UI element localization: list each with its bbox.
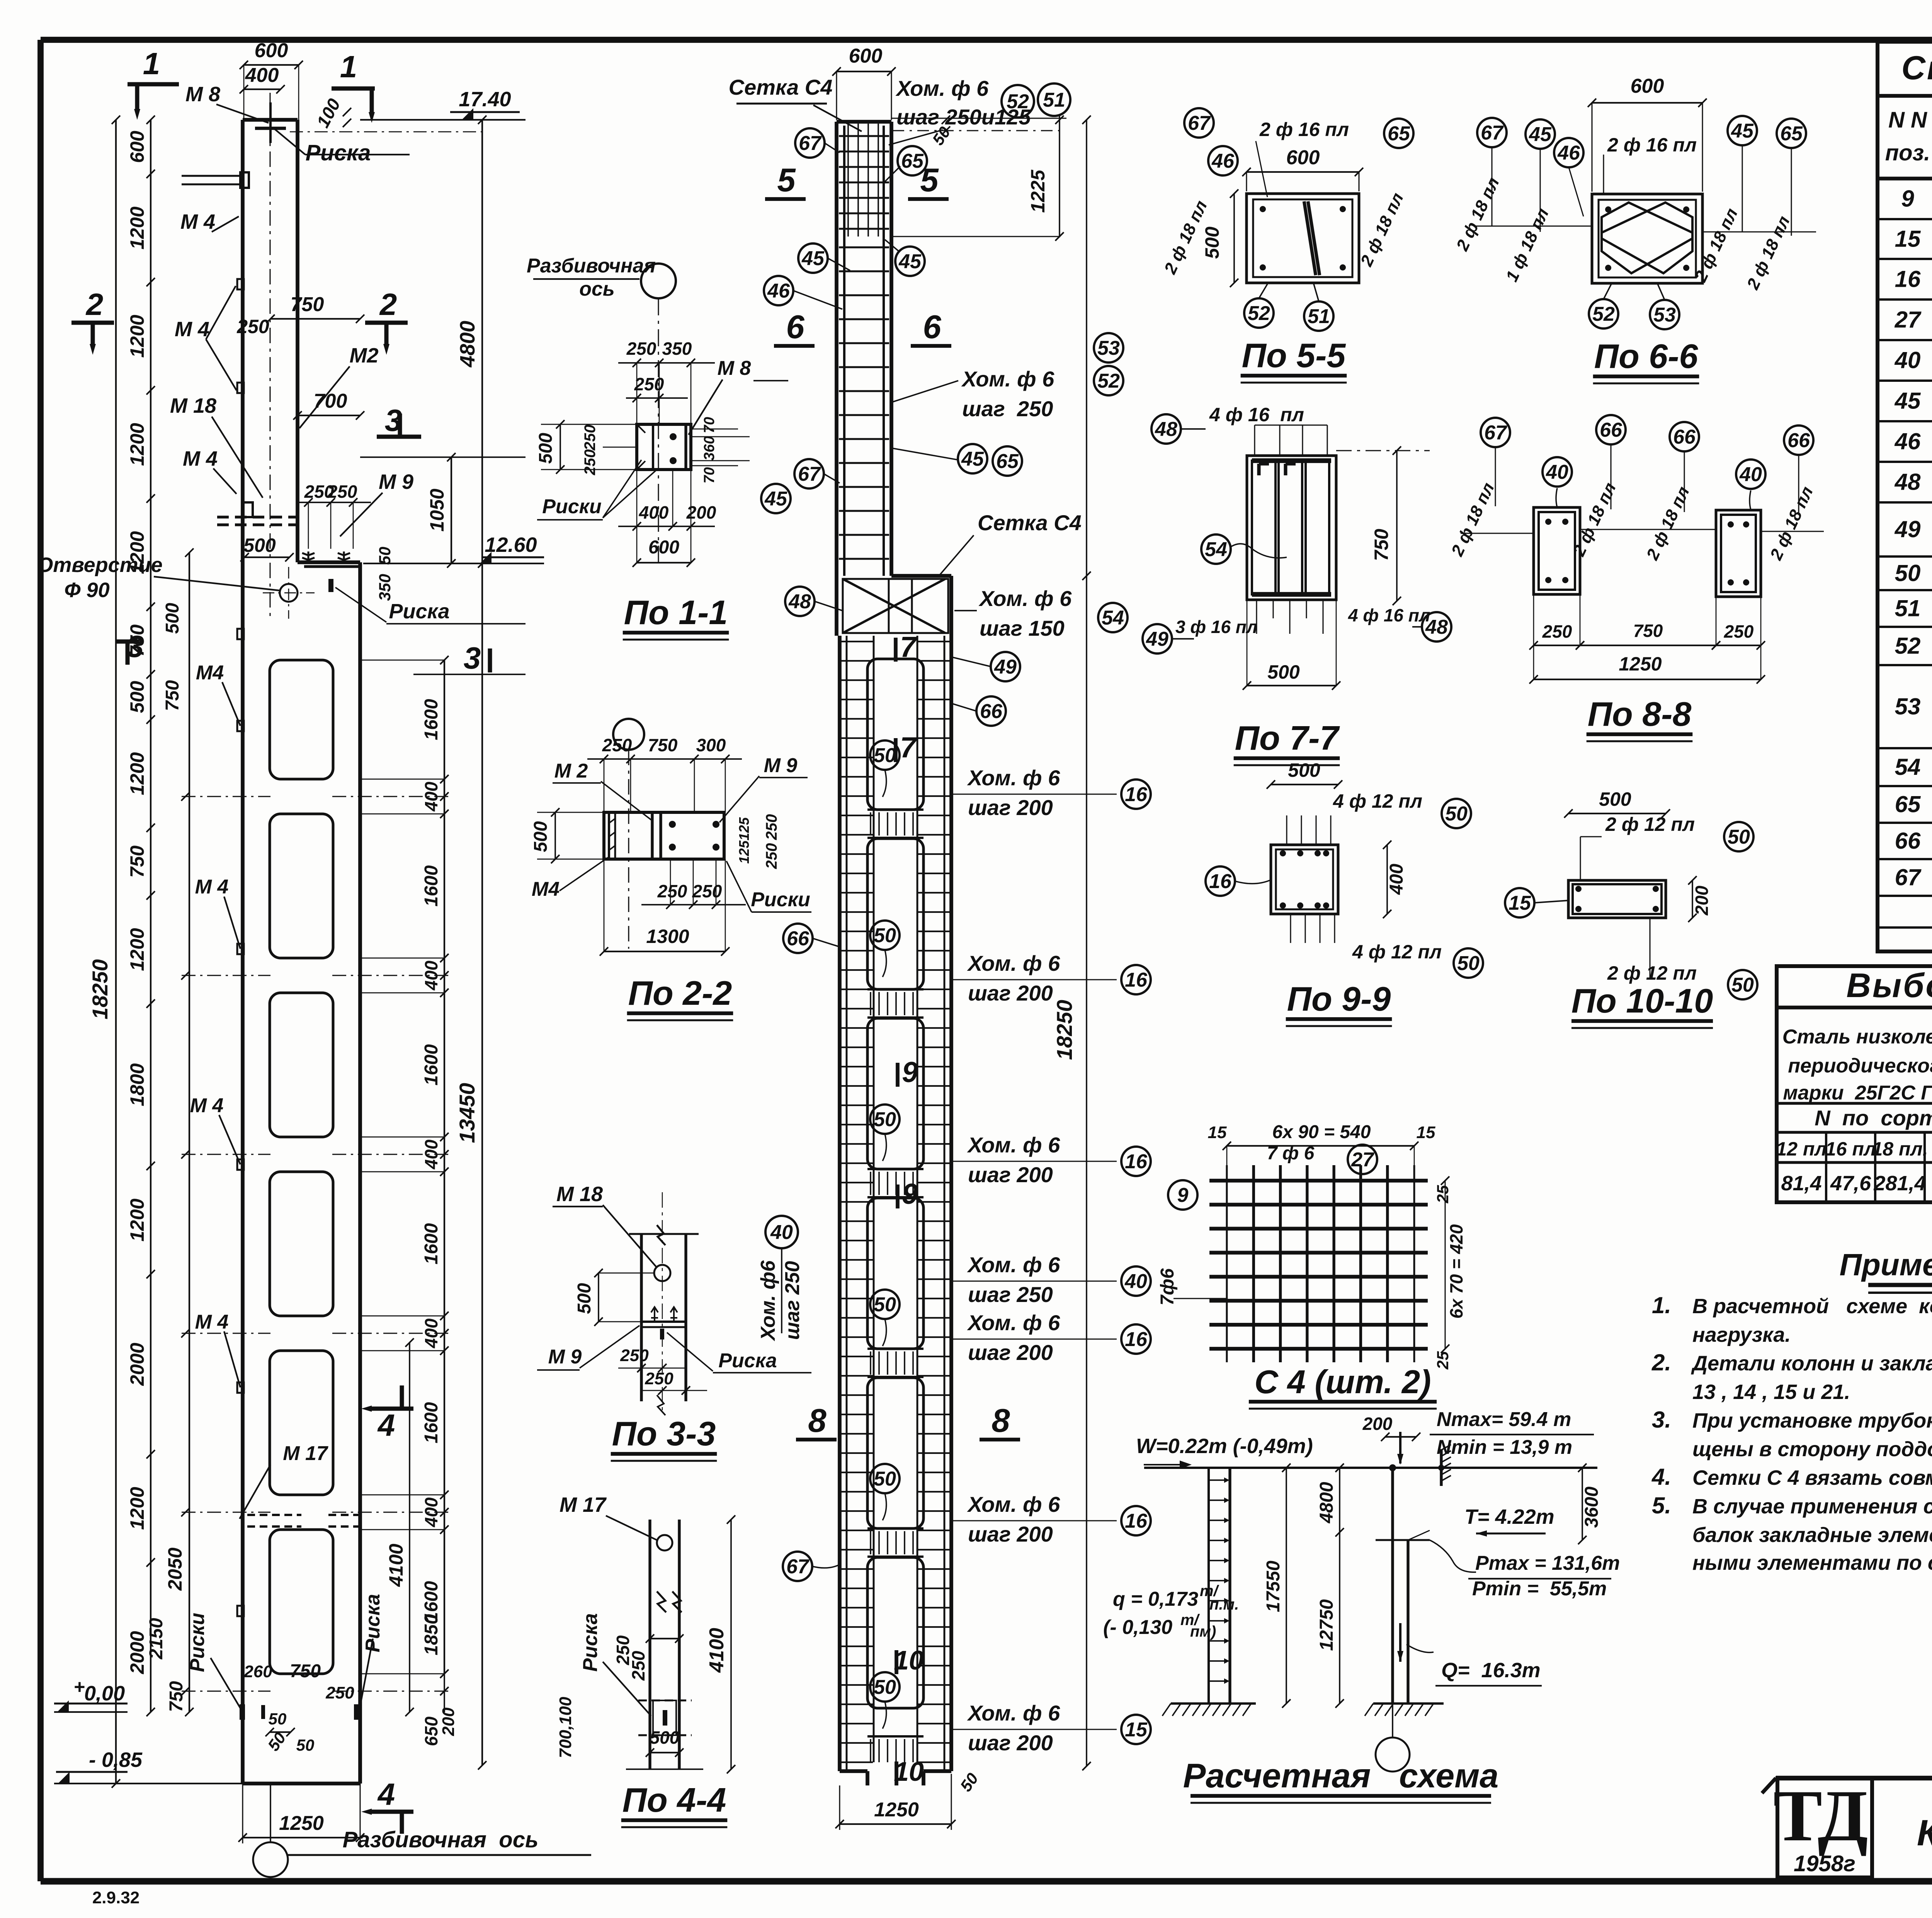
svg-text:65: 65	[901, 150, 924, 172]
svg-text:Сетка С4: Сетка С4	[729, 75, 833, 99]
svg-text:16 пл: 16 пл	[1825, 1138, 1876, 1160]
middle openings	[867, 659, 923, 810]
svg-text:54: 54	[1895, 754, 1921, 780]
svg-text:67: 67	[799, 132, 822, 155]
svg-text:500: 500	[162, 603, 183, 634]
svg-text:По 10-10: По 10-10	[1571, 982, 1713, 1020]
column openings	[270, 660, 333, 779]
svg-text:2000: 2000	[126, 1343, 148, 1386]
svg-text:Т= 4.22т: Т= 4.22т	[1464, 1505, 1554, 1528]
svg-text:3: 3	[385, 403, 402, 437]
svg-text:18250: 18250	[88, 959, 112, 1019]
mesh C4	[1226, 1165, 1228, 1362]
svg-text:600: 600	[1631, 75, 1664, 97]
hole Ф90	[280, 584, 298, 602]
steel selection table (Выборка стали на колонну)	[1777, 966, 1932, 1202]
svg-text:Риска: Риска	[718, 1350, 777, 1372]
calculation scheme	[1144, 1467, 1597, 1469]
svg-text:6х 70 = 420: 6х 70 = 420	[1446, 1224, 1466, 1319]
svg-text:4100: 4100	[385, 1544, 407, 1587]
band stirrups 2	[870, 992, 871, 1015]
svg-text:q = 0,173: q = 0,173	[1113, 1588, 1198, 1610]
svg-text:7: 7	[900, 731, 917, 764]
svg-text:шаг 200: шаг 200	[968, 1522, 1053, 1546]
svg-text:27: 27	[1351, 1149, 1374, 1171]
svg-text:16: 16	[1125, 1328, 1148, 1351]
svg-text:250: 250	[763, 814, 780, 841]
svg-text:1250: 1250	[874, 1799, 919, 1821]
svg-text:65: 65	[1780, 123, 1803, 145]
M17 tube dashed	[653, 1700, 676, 1735]
top mesh zone	[847, 124, 849, 237]
По1-1 left dims	[560, 424, 561, 470]
svg-text:52: 52	[1592, 303, 1615, 325]
svg-text:9: 9	[902, 1056, 918, 1088]
svg-text:М 8: М 8	[718, 357, 751, 380]
svg-text:250: 250	[763, 843, 780, 870]
svg-text:17.40: 17.40	[459, 88, 511, 111]
svg-text:4: 4	[377, 1408, 395, 1442]
logo box ТД 1958	[1777, 1778, 1872, 1877]
svg-text:15: 15	[1417, 1123, 1435, 1142]
svg-text:По 3-3: По 3-3	[612, 1414, 716, 1453]
svg-text:Расчетная схема: Расчетная схема	[1183, 1756, 1499, 1795]
svg-text:500: 500	[1288, 759, 1320, 781]
svg-text:50: 50	[1731, 974, 1754, 996]
svg-text:16: 16	[1125, 783, 1148, 806]
svg-text:3.: 3.	[1652, 1407, 1671, 1433]
svg-text:Сетка С4: Сетка С4	[978, 511, 1082, 535]
svg-text:балок закладные элементы М8 и: балок закладные элементы М8 и М9 заменяю…	[1692, 1523, 1932, 1547]
svg-text:50: 50	[1445, 803, 1468, 825]
stem axis	[269, 93, 270, 618]
svg-text:250: 250	[325, 1683, 354, 1702]
svg-text:67: 67	[786, 1556, 810, 1578]
18250 dim	[1086, 120, 1087, 1766]
svg-text:1200: 1200	[126, 928, 148, 971]
svg-text:М 4: М 4	[195, 1311, 229, 1333]
svg-text:1200: 1200	[126, 423, 148, 466]
svg-text:49: 49	[1146, 628, 1168, 650]
svg-text:250: 250	[628, 1651, 648, 1681]
svg-text:54: 54	[1102, 607, 1124, 629]
По1-1 square	[637, 424, 691, 470]
circled 66 and 67	[976, 696, 1006, 726]
svg-text:500: 500	[1201, 226, 1223, 259]
svg-text:М 17: М 17	[560, 1493, 607, 1516]
По3-3 dims	[598, 1273, 599, 1322]
svg-text:Хом. ф 6: Хом. ф 6	[961, 367, 1054, 391]
svg-text:1600: 1600	[421, 699, 442, 740]
svg-text:9: 9	[1901, 186, 1914, 212]
svg-text:пм): пм)	[1190, 1623, 1216, 1640]
svg-text:Хом. ф 6: Хом. ф 6	[967, 1701, 1060, 1725]
chain C extra labels	[189, 553, 190, 1712]
svg-text:500: 500	[531, 821, 551, 852]
svg-text:400: 400	[421, 1139, 441, 1169]
По2-2 top dims 250 750 300	[587, 758, 742, 760]
svg-text:4: 4	[377, 1777, 395, 1811]
svg-text:40: 40	[770, 1221, 793, 1244]
svg-text:2: 2	[379, 287, 397, 322]
svg-text:48: 48	[1895, 469, 1921, 495]
svg-text:53: 53	[1653, 304, 1676, 326]
svg-text:4800: 4800	[1316, 1482, 1337, 1523]
svg-text:65: 65	[996, 450, 1019, 473]
svg-text:53: 53	[1895, 694, 1921, 720]
circled labels right of stem	[898, 146, 927, 175]
M17 dashed marks in opening band	[247, 1514, 301, 1516]
svg-text:Хом. ф6: Хом. ф6	[757, 1260, 779, 1342]
svg-text:1600: 1600	[421, 1044, 442, 1086]
middle reinforcement elevation	[835, 122, 838, 636]
svg-text:300: 300	[696, 735, 726, 755]
svg-text:400: 400	[1386, 864, 1407, 895]
svg-text:13 , 14 , 15 и 21.: 13 , 14 , 15 и 21.	[1692, 1380, 1850, 1404]
svg-text:М 4: М 4	[175, 318, 209, 341]
svg-text:250: 250	[620, 1346, 649, 1365]
bottom riska marks	[240, 1704, 245, 1720]
svg-text:щены в сторону поддона.: щены в сторону поддона.	[1692, 1438, 1932, 1461]
svg-text:1600: 1600	[421, 1223, 442, 1264]
svg-text:27: 27	[1895, 307, 1922, 333]
section mark 3-3	[377, 435, 421, 439]
M9 anchor dots	[669, 821, 676, 828]
svg-text:66: 66	[1600, 419, 1622, 441]
console dims 750/250/700/500	[270, 318, 360, 320]
svg-text:250: 250	[657, 881, 687, 901]
svg-text:Ф 90: Ф 90	[64, 579, 109, 602]
svg-text:45: 45	[1529, 123, 1552, 146]
svg-text:125: 125	[736, 817, 752, 841]
svg-text:40: 40	[1739, 463, 1762, 486]
svg-text:Хом. ф 6: Хом. ф 6	[967, 951, 1060, 975]
M4 plate hatch left	[608, 812, 610, 859]
svg-text:52: 52	[1007, 90, 1029, 113]
svg-text:1850: 1850	[421, 1614, 442, 1655]
svg-text:2 ф 12 пл: 2 ф 12 пл	[1605, 813, 1695, 835]
svg-text:Риски: Риски	[751, 888, 810, 911]
svg-text:Хом. ф 6: Хом. ф 6	[967, 766, 1060, 790]
svg-text:750: 750	[1633, 621, 1663, 641]
svg-text:3600: 3600	[1582, 1486, 1602, 1528]
svg-text:45: 45	[1895, 388, 1921, 414]
svg-text:М4: М4	[532, 878, 560, 900]
svg-text:51: 51	[1043, 89, 1065, 111]
svg-text:4800: 4800	[456, 321, 479, 368]
svg-text:По 1-1: По 1-1	[624, 593, 728, 631]
section По 5-5	[1247, 194, 1359, 283]
svg-text:250: 250	[327, 482, 357, 502]
M18 anchor dashed	[243, 502, 253, 517]
svg-text:400: 400	[421, 781, 441, 812]
svg-text:1958г: 1958г	[1794, 1851, 1855, 1876]
svg-text:52: 52	[1895, 633, 1921, 659]
svg-text:350: 350	[376, 574, 394, 601]
ground hatching	[1171, 1702, 1256, 1705]
svg-text:М 9: М 9	[764, 754, 798, 777]
svg-text:81,4: 81,4	[1781, 1172, 1821, 1195]
svg-text:750: 750	[1371, 529, 1392, 561]
M9 console bolts	[304, 565, 361, 568]
svg-text:Риска: Риска	[362, 1594, 384, 1652]
svg-text:50: 50	[1728, 826, 1750, 848]
sheet border frame	[41, 37, 1932, 43]
svg-text:В расчетной схеме колонны у: В расчетной схеме колонны указана расчет…	[1692, 1295, 1932, 1318]
razbivochnaya os bottom	[253, 1842, 288, 1877]
svg-text:2 ф 16 пл: 2 ф 16 пл	[1259, 119, 1349, 140]
svg-text:N N: N N	[1888, 107, 1927, 133]
svg-text:400: 400	[421, 1318, 441, 1348]
svg-text:50: 50	[874, 1468, 896, 1490]
svg-text:шаг 250: шаг 250	[968, 1282, 1053, 1307]
bottom band	[870, 1739, 871, 1762]
left column elevation outline	[241, 120, 245, 1784]
svg-text:66: 66	[787, 928, 810, 950]
svg-text:Риска: Риска	[579, 1613, 602, 1671]
svg-text:По 2-2: По 2-2	[628, 974, 732, 1012]
svg-text:750: 750	[291, 293, 324, 316]
column top M8 plate	[255, 127, 286, 130]
svg-text:66: 66	[1895, 828, 1921, 854]
svg-text:3 ф 16 пл: 3 ф 16 пл	[1175, 617, 1258, 637]
По2-2 bottom dims	[641, 904, 746, 905]
svg-text:2.9.32: 2.9.32	[92, 1888, 139, 1907]
svg-text:15: 15	[1208, 1123, 1227, 1142]
svg-text:Хом. ф 6: Хом. ф 6	[978, 586, 1072, 611]
left dim chain B total	[115, 120, 117, 1784]
scheme dims	[1286, 1468, 1287, 1704]
svg-text:250: 250	[1724, 621, 1754, 642]
svg-text:Хом. ф 6: Хом. ф 6	[967, 1133, 1060, 1157]
svg-text:50: 50	[1457, 952, 1480, 975]
band stirrups 4	[870, 1351, 871, 1375]
dim 1050	[451, 457, 452, 563]
svg-text:М 17: М 17	[283, 1442, 328, 1465]
svg-text:ными элементами по серии КЭ- 0: ными элементами по серии КЭ- 01- 07 выпу…	[1692, 1551, 1932, 1574]
svg-text:6х 90 = 540: 6х 90 = 540	[1272, 1122, 1371, 1142]
svg-text:46: 46	[1895, 429, 1921, 454]
svg-text:6: 6	[786, 309, 804, 345]
svg-text:1200: 1200	[126, 206, 148, 249]
svg-text:650: 650	[421, 1716, 441, 1746]
svg-text:+: +	[73, 1676, 85, 1698]
svg-text:67: 67	[1895, 865, 1922, 890]
svg-text:Хом. ф 6: Хом. ф 6	[967, 1310, 1060, 1335]
svg-text:По 6-6: По 6-6	[1594, 337, 1699, 375]
section mark 1-1	[128, 82, 179, 87]
svg-text:50: 50	[874, 1293, 896, 1316]
title block	[1762, 1778, 1776, 1793]
svg-text:4 ф 16 пл: 4 ф 16 пл	[1348, 605, 1430, 625]
svg-text:1050: 1050	[426, 488, 448, 531]
svg-text:700: 700	[314, 390, 347, 412]
svg-text:12750: 12750	[1316, 1599, 1337, 1651]
svg-text:1200: 1200	[126, 315, 148, 357]
svg-text:Примечания:: Примечания:	[1839, 1247, 1932, 1282]
svg-text:600: 600	[1286, 146, 1320, 169]
svg-text:1250: 1250	[279, 1812, 324, 1835]
svg-text:Разбивочная ось: Разбивочная ось	[343, 1827, 539, 1852]
svg-text:600: 600	[849, 45, 883, 67]
svg-text:М 4: М 4	[190, 1094, 224, 1117]
svg-text:М4: М4	[196, 662, 224, 684]
По1-1 bottom dims	[618, 526, 715, 527]
stem rebar cage	[843, 126, 845, 576]
chord rungs	[841, 641, 873, 642]
svg-text:М 18: М 18	[556, 1183, 603, 1206]
svg-text:750: 750	[290, 1661, 321, 1681]
svg-text:Nmax= 59.4 т: Nmax= 59.4 т	[1437, 1408, 1571, 1431]
svg-text:45: 45	[898, 250, 922, 273]
svg-text:По 9-9: По 9-9	[1287, 980, 1391, 1018]
svg-text:50: 50	[376, 547, 394, 565]
svg-text:ось: ось	[579, 278, 615, 300]
svg-text:47,6: 47,6	[1830, 1172, 1871, 1195]
svg-text:1225: 1225	[1027, 169, 1049, 213]
svg-text:Разбивочная: Разбивочная	[527, 255, 656, 277]
svg-text:50: 50	[1895, 560, 1921, 586]
svg-text:нагрузка.: нагрузка.	[1692, 1323, 1791, 1346]
N force arrow	[1399, 1432, 1401, 1464]
svg-text:250: 250	[602, 735, 632, 755]
svg-text:250: 250	[582, 425, 599, 451]
svg-text:1300: 1300	[646, 926, 689, 947]
svg-text:М 4: М 4	[180, 210, 215, 233]
svg-text:40: 40	[1546, 461, 1568, 483]
svg-text:1: 1	[143, 46, 160, 81]
svg-text:Риска: Риска	[389, 600, 449, 623]
right chain 4800 + 13450	[481, 120, 483, 1765]
svg-text:5.: 5.	[1652, 1493, 1671, 1518]
svg-text:49: 49	[994, 656, 1017, 678]
svg-text:50: 50	[874, 924, 896, 947]
svg-text:М 8: М 8	[185, 83, 220, 106]
svg-text:750: 750	[648, 735, 678, 755]
section По 9-9	[1271, 845, 1338, 914]
section По 10-10	[1568, 880, 1666, 918]
band stirrups 5	[870, 1531, 871, 1554]
support bracket	[1440, 1449, 1442, 1486]
svg-text:51: 51	[1895, 596, 1921, 621]
svg-text:По 8-8: По 8-8	[1588, 695, 1692, 733]
svg-text:67: 67	[798, 463, 821, 485]
specification table (Спецификация арматуры)	[1878, 42, 1932, 951]
section По 6-6	[1592, 194, 1702, 283]
svg-text:750: 750	[166, 1681, 187, 1712]
svg-text:350: 350	[662, 339, 692, 359]
svg-text:67: 67	[1481, 122, 1504, 144]
svg-text:52: 52	[1248, 302, 1270, 325]
svg-text:марки 25Г2С ГОСТ 7314-55: марки 25Г2С ГОСТ 7314-55	[1783, 1082, 1932, 1104]
svg-text:40: 40	[1895, 347, 1921, 373]
svg-text:51: 51	[1308, 305, 1330, 328]
svg-text:4 ф 16 пл: 4 ф 16 пл	[1209, 404, 1304, 425]
svg-text:46: 46	[767, 280, 790, 302]
svg-text:18250: 18250	[1052, 1000, 1077, 1060]
svg-text:400: 400	[639, 502, 669, 522]
svg-text:2.: 2.	[1651, 1350, 1671, 1375]
svg-text:750: 750	[126, 625, 148, 657]
section mark 2-2	[71, 321, 114, 325]
svg-text:400: 400	[421, 960, 441, 990]
svg-text:1800: 1800	[126, 1063, 148, 1106]
svg-text:Хом. ф 6: Хом. ф 6	[967, 1492, 1060, 1516]
svg-text:250: 250	[692, 881, 722, 901]
bottom 1250 dim middle	[840, 1823, 951, 1825]
svg-text:18 пл.: 18 пл.	[1872, 1138, 1928, 1160]
svg-text:250: 250	[1542, 621, 1572, 642]
right chain 1600/400	[444, 660, 445, 1674]
svg-text:281,4: 281,4	[1873, 1172, 1926, 1195]
svg-text:600: 600	[255, 39, 288, 62]
svg-text:46: 46	[1557, 142, 1580, 164]
svg-text:М 4: М 4	[195, 876, 229, 898]
svg-text:При установке трубок М 17: При установке трубок М 17 анкеры должны …	[1692, 1409, 1932, 1432]
svg-text:250: 250	[236, 316, 269, 337]
svg-text:600: 600	[126, 131, 148, 163]
svg-text:поз.: поз.	[1885, 140, 1930, 165]
svg-text:1.: 1.	[1652, 1292, 1671, 1318]
svg-text:66: 66	[1673, 426, 1696, 448]
chord inner cage lines	[846, 636, 848, 1771]
svg-text:1200: 1200	[126, 531, 148, 574]
svg-text:N по сортаменту: N по сортаменту	[1815, 1106, 1932, 1130]
svg-text:0,00: 0,00	[84, 1682, 125, 1705]
svg-text:15: 15	[1509, 892, 1531, 914]
svg-text:12.60: 12.60	[485, 533, 537, 557]
svg-text:Риска: Риска	[306, 140, 371, 165]
svg-text:Сетки С 4 вязать совместно с: Сетки С 4 вязать совместно с закладными …	[1692, 1466, 1932, 1489]
svg-text:200: 200	[1692, 885, 1712, 916]
svg-text:16: 16	[1895, 266, 1921, 292]
M2 plate lines	[651, 812, 653, 859]
svg-text:70: 70	[701, 417, 718, 433]
svg-text:1600: 1600	[421, 1402, 442, 1443]
svg-text:54: 54	[1205, 538, 1227, 561]
svg-text:50: 50	[874, 1676, 896, 1698]
svg-text:8: 8	[808, 1402, 827, 1439]
svg-text:50: 50	[269, 1710, 287, 1728]
svg-text:С 4 (шт. 2): С 4 (шт. 2)	[1254, 1364, 1431, 1401]
svg-text:2000: 2000	[126, 1631, 148, 1674]
svg-text:шаг 200: шаг 200	[968, 981, 1053, 1005]
svg-text:16: 16	[1209, 870, 1232, 893]
svg-text:400: 400	[245, 64, 279, 87]
svg-text:16: 16	[1125, 1150, 1148, 1173]
Q arrow	[1399, 1623, 1401, 1662]
svg-text:45: 45	[961, 448, 984, 470]
svg-text:М2: М2	[349, 344, 378, 367]
svg-text:66: 66	[1787, 429, 1810, 452]
svg-text:Q= 16.3т: Q= 16.3т	[1441, 1659, 1541, 1682]
svg-text:8: 8	[992, 1402, 1010, 1439]
svg-text:7: 7	[900, 631, 917, 663]
console block	[891, 574, 951, 578]
svg-text:750: 750	[162, 680, 183, 711]
svg-text:70: 70	[701, 467, 718, 483]
svg-text:1250: 1250	[1619, 653, 1662, 675]
section По 7-7	[1247, 456, 1336, 600]
svg-text:периодического профиля: периодического профиля	[1788, 1055, 1932, 1077]
M4 anchor marks	[182, 175, 243, 177]
По1-1 top dims	[618, 362, 715, 364]
svg-text:4100: 4100	[706, 1628, 728, 1673]
bottom 1250 dim	[243, 1837, 360, 1838]
svg-text:М 9: М 9	[379, 470, 413, 494]
svg-text:2150: 2150	[146, 1618, 167, 1659]
band stirrups 0	[867, 839, 923, 989]
